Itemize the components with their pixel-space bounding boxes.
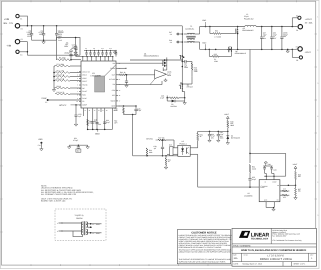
terminal SYNC [47, 99, 49, 101]
ground input caps [43, 40, 45, 42]
capacitor C5 [75, 38, 77, 47]
svg-text:VOUT: VOUT [293, 163, 298, 166]
op-amp U3 body LT4430 [259, 180, 280, 202]
svg-text:-VIN: -VIN [7, 45, 12, 48]
svg-text:E4: E4 [20, 53, 22, 56]
transformer T1 secondary [184, 41, 188, 43]
wire startup box [56, 38, 80, 56]
U1 top pins [82, 57, 84, 61]
wire T4 pin1 [59, 222, 83, 224]
svg-text:3: 3 [317, 214, 318, 217]
svg-text:17: 17 [119, 100, 121, 102]
capacitor C9 [70, 56, 72, 60]
wire T1 sec bottom [199, 42, 201, 49]
svg-text:BOARD SIZE: 2.30 BY 1.45: BOARD SIZE: 2.30 BY 1.45 [41, 200, 66, 203]
wire opto lower [133, 155, 178, 157]
dashed option box [55, 209, 106, 240]
wire E2 to +VIN rail [20, 25, 28, 27]
Linear Technology logo mark [239, 231, 248, 238]
wire T4 out top [86, 223, 101, 225]
svg-text:SYNC: SYNC [41, 97, 47, 100]
resistor R6 [57, 59, 71, 61]
capacitor C1 column [43, 26, 45, 33]
svg-text:36V - 72V: 36V - 72V [3, 22, 13, 25]
svg-text:R41 1k: R41 1k [120, 71, 126, 74]
wire -VIN rail [27, 54, 56, 56]
svg-text:SW2: SW2 [202, 41, 206, 44]
wire C31 net [69, 144, 88, 146]
svg-text:R8 1k: R8 1k [57, 85, 62, 88]
wire E3 stub [20, 41, 28, 43]
ground C23 [75, 123, 77, 125]
svg-text:48VIN TO 3V, 30A ISOLATED DC/D: 48VIN TO 3V, 30A ISOLATED DC/DC CONVERTE… [241, 249, 307, 252]
capacitor C27b [271, 166, 273, 167]
svg-text:GND: GND [95, 132, 100, 135]
label GND net [97, 129, 99, 131]
svg-text:IN: IN [264, 181, 265, 183]
wire primary vertical [181, 26, 183, 55]
svg-text:LT3752EFE: LT3752EFE [268, 254, 285, 257]
svg-text:17: 17 [102, 110, 104, 112]
wire E5 [292, 17, 298, 19]
transistor Q5 [235, 29, 237, 34]
wire left resistor bus [53, 66, 55, 88]
transformer T4 core [83, 221, 85, 235]
svg-text:3: 3 [317, 82, 318, 85]
resistor R12 [55, 93, 70, 95]
wire U3 gnd pins [265, 202, 267, 208]
svg-text:1210: 1210 [27, 35, 31, 38]
svg-text:FB: FB [277, 185, 279, 187]
resistor R25 array [170, 147, 173, 156]
svg-text:PG0083.362: PG0083.362 [244, 17, 254, 20]
capacitor C27 [261, 27, 263, 37]
svg-text:+VOUT: +VOUT [305, 18, 313, 21]
terminal E4 [16, 50, 19, 53]
wire T1 sec top [199, 27, 201, 35]
svg-text:2: 2 [317, 181, 318, 184]
wire diagonal to driver [150, 79, 155, 85]
ground top bus [114, 50, 116, 52]
transformer T1 primary [184, 33, 188, 35]
wire opto pin4 [190, 147, 198, 149]
wire T4 mid stub [86, 226, 92, 228]
capacitor C20 [135, 106, 137, 109]
resistor R29 [197, 131, 199, 133]
resistor R36 [295, 171, 297, 179]
transistor Q1 [162, 60, 164, 66]
svg-text:SUPPLIED FOR USE WITH LINEAR T: SUPPLIED FOR USE WITH LINEAR TECHNOLOGY … [179, 260, 227, 263]
svg-text:R9 1.07M: R9 1.07M [57, 69, 65, 72]
U1 left pins [79, 71, 81, 73]
resistor R24 [146, 148, 148, 156]
svg-text:REV: REV [310, 254, 313, 256]
svg-text:1: 1 [317, 16, 318, 19]
svg-text:3V - 30A: 3V - 30A [305, 22, 313, 25]
customer notice box [177, 230, 230, 264]
svg-text:Q6: Q6 [235, 50, 237, 53]
capacitor C35/6 [281, 27, 283, 37]
capacitor C3 column [56, 26, 58, 33]
resistor R14 [87, 120, 89, 126]
wire pin23 stub [118, 67, 126, 69]
capacitor C2 column [31, 26, 33, 33]
title block frame [232, 228, 316, 266]
capacitor C22 [103, 121, 106, 123]
terminal E8 [299, 56, 302, 59]
ground C9 up [70, 51, 72, 53]
wire return rail [200, 48, 295, 50]
svg-text:1: 1 [317, 148, 318, 151]
gate loop R33 [208, 49, 210, 56]
ground C16 [126, 84, 128, 86]
label C31 2kV box [76, 149, 81, 152]
diode D3 [166, 98, 168, 101]
U1 right pins [116, 62, 118, 64]
resistor R11 [55, 80, 70, 82]
wire bottom gnd rail [88, 128, 113, 130]
ground U3 [273, 208, 275, 210]
svg-text:11: 11 [76, 105, 78, 107]
ground C26 up [265, 163, 267, 165]
U1 pad diagonal [105, 65, 116, 76]
resistor R41 [118, 74, 120, 76]
transistor Q6 [228, 47, 230, 52]
capacitor C26 [264, 166, 266, 167]
wire Q4 down [181, 89, 183, 92]
svg-text:DATE:: DATE: [234, 263, 240, 266]
wire SS bottom [124, 114, 137, 116]
capacitor C31 [77, 145, 79, 146]
svg-text:Q5: Q5 [243, 27, 245, 30]
svg-text:SHEET 1 OF 1: SHEET 1 OF 1 [294, 263, 306, 266]
wire driver out [162, 67, 164, 71]
ground left bus [53, 88, 55, 90]
wire E6 [295, 26, 299, 28]
capacitor C17 [182, 61, 184, 63]
wire T4 jog [73, 231, 83, 237]
wire top fb rail [250, 152, 286, 154]
transformer T1 core [186, 35, 195, 37]
transistor Q4 [179, 85, 181, 89]
wire SW1 rail [200, 26, 245, 28]
decoupling capacitors row [86, 54, 88, 56]
svg-text:CUSTOMER NOTICE: CUSTOMER NOTICE [191, 231, 217, 234]
wire E8 [292, 56, 299, 58]
svg-text:PS2801-1: PS2801-1 [179, 142, 187, 145]
svg-text:BSC160N10NS3 G: BSC160N10NS3 G [144, 55, 160, 58]
wire Q4 drain jog [181, 89, 183, 92]
capacitor C21 [95, 122, 98, 124]
svg-text:R11 41.2k: R11 41.2k [57, 77, 65, 80]
ground C5 [75, 51, 77, 53]
wire opto pin2 [190, 153, 198, 155]
wires below U1 [87, 112, 89, 129]
capacitor C36 [209, 131, 211, 134]
wire -VIN vertical [26, 42, 28, 56]
svg-text:INTVCC: INTVCC [146, 138, 153, 141]
ground D4 [227, 141, 229, 143]
wire c26 bus [265, 165, 267, 166]
capacitor C25 [249, 173, 251, 179]
svg-text:DEMO CIRCUIT 2050A: DEMO CIRCUIT 2050A [260, 258, 292, 261]
transformer T4 primary [81, 222, 82, 225]
wire opto pin1 [173, 147, 178, 149]
ground return rail [287, 49, 289, 51]
svg-text:LT3752EFE: LT3752EFE [91, 74, 102, 77]
svg-text:GND: GND [38, 138, 43, 141]
op-amp driver triangle [155, 70, 167, 79]
capacitor C16 [126, 75, 128, 81]
wire opto pin3 [173, 153, 178, 155]
terminal E1 (+VIN) [16, 14, 19, 17]
resistor R9 [55, 72, 70, 74]
snubber R17 C short [176, 33, 182, 35]
capacitor C23 [75, 105, 77, 115]
wire +VIN rail [27, 25, 182, 27]
svg-text:E1: E1 [20, 17, 22, 20]
wire comp wire [198, 186, 260, 188]
svg-text:INTVCC: INTVCC [59, 104, 67, 107]
resistor R34 [249, 165, 251, 173]
wire top bus upper [84, 49, 115, 51]
svg-text:VOUT: VOUT [224, 113, 229, 116]
svg-text:14: 14 [89, 110, 91, 112]
wire top bus [76, 56, 113, 58]
wire SS net [118, 105, 136, 107]
svg-text:T4 (OPT A): T4 (OPT A) [75, 214, 84, 217]
capacitor C19 [162, 140, 164, 147]
svg-text:E3: E3 [21, 38, 23, 41]
wire SYNC [49, 99, 81, 101]
svg-text:IRF6217: IRF6217 [187, 86, 194, 89]
wire E7 [295, 48, 298, 50]
wire T4 out bottom [86, 232, 101, 234]
resistor R22 [166, 96, 168, 98]
svg-text:R7 1.58M: R7 1.58M [57, 63, 65, 66]
ground driver [165, 78, 167, 80]
svg-text:TITLE: SCHEMATIC: TITLE: SCHEMATIC [233, 244, 251, 247]
capacitor C32 [271, 27, 273, 37]
wire Q1 source [166, 68, 168, 70]
resistor R16 [123, 108, 125, 114]
svg-text:PA0784: PA0784 [76, 217, 82, 220]
opto U2 body [178, 145, 190, 156]
terminal E5 [298, 16, 301, 19]
wire FB pin [280, 184, 296, 186]
wire clamp bottom [191, 77, 193, 84]
wire input cap bottom rail [32, 39, 57, 41]
svg-text:E2: E2 [21, 28, 23, 31]
ground C31 left [68, 145, 70, 147]
svg-text:24.9k: 24.9k [252, 168, 256, 171]
terminal E7 (-VOUT) [298, 47, 302, 51]
resistor R10 [55, 76, 70, 78]
capacitor C15 [91, 121, 94, 123]
resistor R37 [295, 185, 297, 188]
svg-text:+VIN: +VIN [4, 18, 10, 21]
resistor R26 [188, 61, 192, 63]
opto U2 led [181, 148, 184, 151]
ground R37 [295, 196, 297, 198]
svg-text:R12 14.7k: R12 14.7k [57, 91, 65, 94]
svg-text:GA3459-BL: GA3459-BL [185, 27, 194, 30]
resistor R27 [158, 139, 166, 141]
ground R31 [165, 166, 167, 168]
svg-text:15: 15 [94, 110, 96, 112]
capacitor C13 [75, 45, 77, 48]
svg-text:ALL CERAMIC CAPACITORS ARE X7R: ALL CERAMIC CAPACITORS ARE X7R [41, 193, 77, 196]
svg-text:Monday, March 17, 2014: Monday, March 17, 2014 [243, 263, 262, 266]
resistor R8 [55, 87, 70, 89]
wire VOUT rail [256, 26, 294, 28]
resistor R31 [165, 156, 167, 158]
resistor R38 small [282, 190, 288, 192]
op-amp U1 body LT3752EFE [81, 61, 116, 108]
ground D3 [184, 101, 186, 103]
terminal E10 gnd post [40, 142, 42, 144]
U1 bottom pins [83, 108, 85, 112]
svg-text:-VOUT: -VOUT [304, 51, 311, 54]
wire caps to pins [264, 172, 266, 174]
svg-text:CIRCUITS MAY NOT BE USED IN LI: CIRCUITS MAY NOT BE USED IN LIFE SUPPORT… [179, 250, 232, 253]
gate loop R32 [209, 27, 211, 34]
wire pin20 under triangle [118, 84, 162, 86]
U1 exposed pad [95, 76, 105, 92]
transistor Q2 [180, 55, 182, 59]
wire E1 to +VIN rail [19, 16, 27, 26]
wire vout drop vertical [249, 49, 251, 163]
svg-text:N/A: N/A [234, 257, 238, 260]
wire E4 stub [19, 51, 27, 53]
diode D4 zener [227, 131, 229, 135]
snubber R18 C short [176, 41, 182, 43]
resistor R7 [55, 65, 70, 67]
transformer T4 secondary [86, 222, 87, 225]
wire in pin rail [264, 175, 286, 177]
svg-text:2: 2 [317, 49, 318, 52]
wire OUT to Q1 gate [118, 62, 163, 64]
svg-text:SW1: SW1 [202, 19, 206, 22]
wire vout sense [198, 130, 228, 132]
wire long vertical to opto [132, 115, 134, 156]
capacitor C38 [217, 131, 219, 134]
svg-text:470pF: 470pF [73, 139, 78, 142]
terminal E3 (-VIN) [15, 39, 19, 43]
wire Q1 drain rail [130, 59, 182, 61]
inductor L1 [245, 25, 248, 26]
svg-text:R10 27.4k: R10 27.4k [57, 73, 65, 76]
svg-text:R6 100k: R6 100k [59, 56, 66, 59]
resistor R30 [227, 121, 229, 128]
resistor R39 small [282, 194, 288, 196]
junction dots on +VIN rail [27, 25, 29, 27]
wire T4 pin3 [59, 230, 83, 232]
U3 top pin stubs [265, 176, 267, 180]
opto U2 transistor [186, 148, 188, 154]
terminal E2 [15, 24, 19, 28]
terminal E6 (+VOUT) [298, 25, 302, 29]
svg-text:TECHNOLOGY: TECHNOLOGY [251, 237, 269, 240]
ground C31 right [87, 145, 89, 147]
ground E10 [40, 144, 42, 148]
